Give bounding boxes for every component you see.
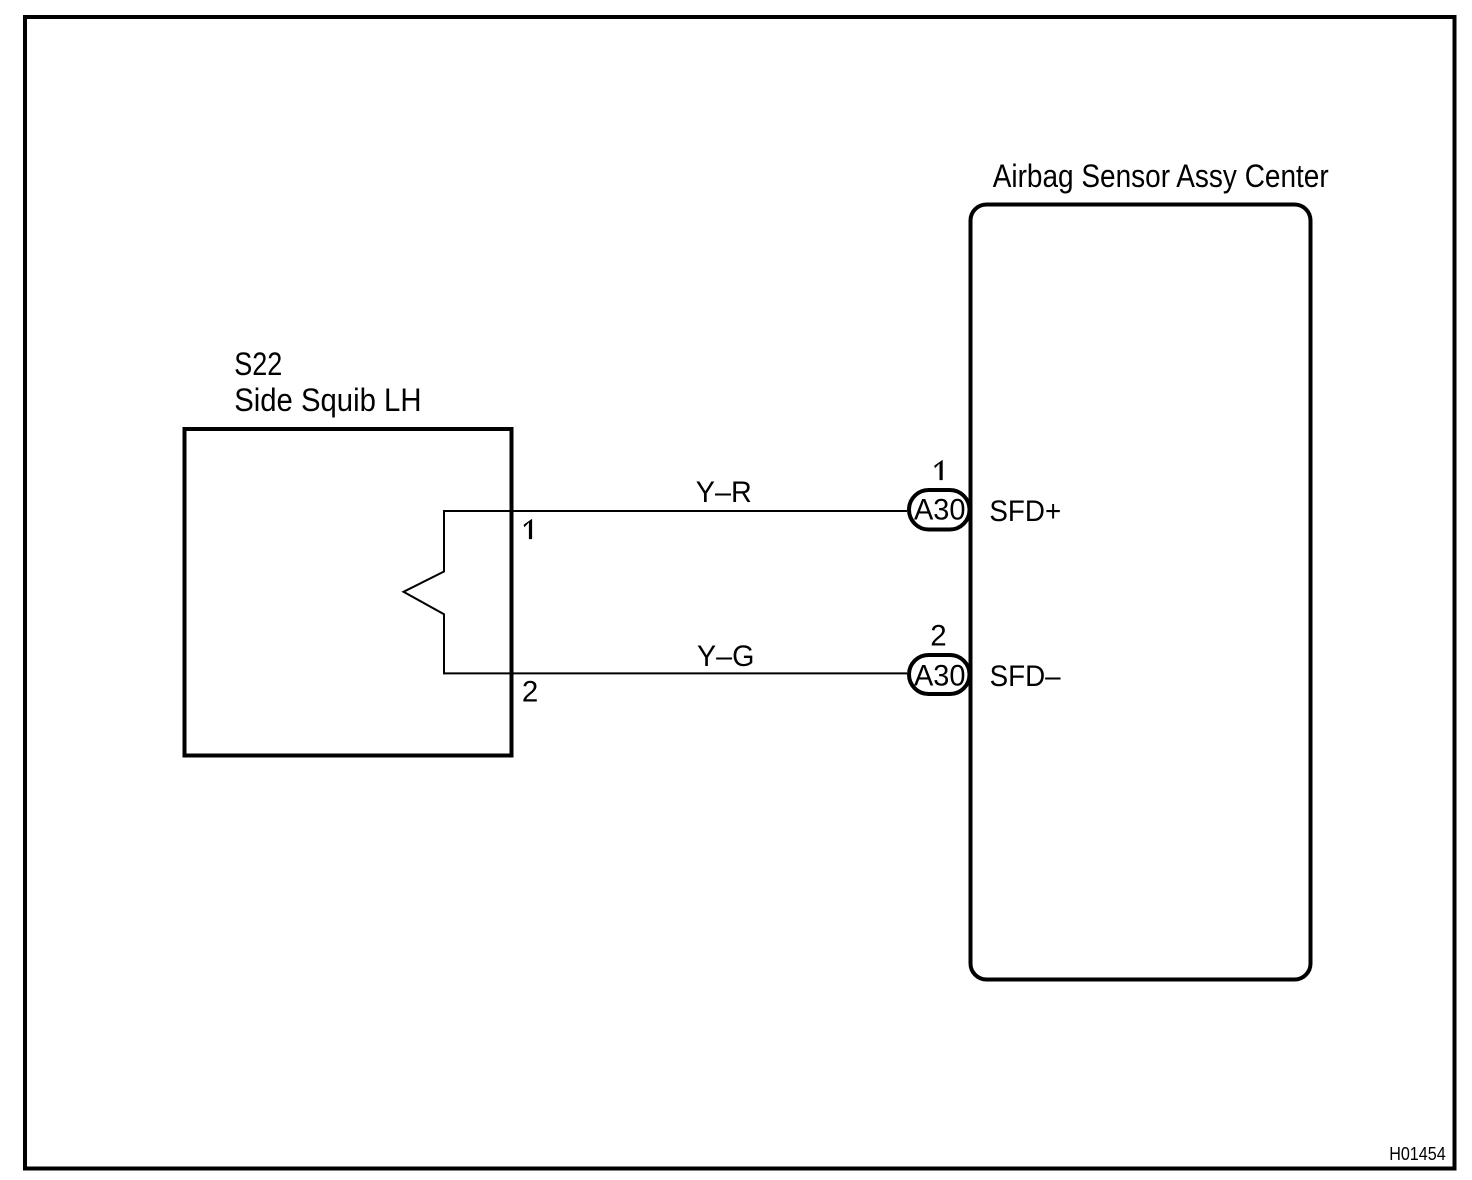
svg-text:Y–R: Y–R [696,476,752,509]
pin number 1 (S22 side) [524,519,533,539]
svg-text:SFD+: SFD+ [989,495,1061,528]
svg-text:2: 2 [930,620,946,653]
pin number 1 (A30 side) [934,460,943,480]
svg-text:SFD–: SFD– [990,660,1062,693]
ECU box Airbag Sensor Assy Center [971,205,1311,980]
svg-text:A30: A30 [914,660,966,693]
svg-text:Airbag Sensor Assy Center: Airbag Sensor Assy Center [993,158,1329,194]
connector S22 Side Squib LH (box) [185,429,512,756]
wire Y–G (S22 pin 2 to A30 pin 2) [444,672,907,674]
svg-text:Y–G: Y–G [697,640,754,673]
connector A30 pin 2 (oval) [909,655,970,694]
wire Y–R (S22 pin 1 to A30 pin 1) [444,510,907,512]
svg-text:H01454: H01454 [1389,1144,1446,1164]
connector A30 pin 1 (oval) [909,490,970,530]
svg-text:Side Squib LH: Side Squib LH [234,382,421,418]
squib element (chevron outline inside S22 box) [404,510,445,674]
svg-text:A30: A30 [914,494,966,527]
svg-text:2: 2 [522,676,538,709]
svg-text:S22: S22 [234,346,282,382]
